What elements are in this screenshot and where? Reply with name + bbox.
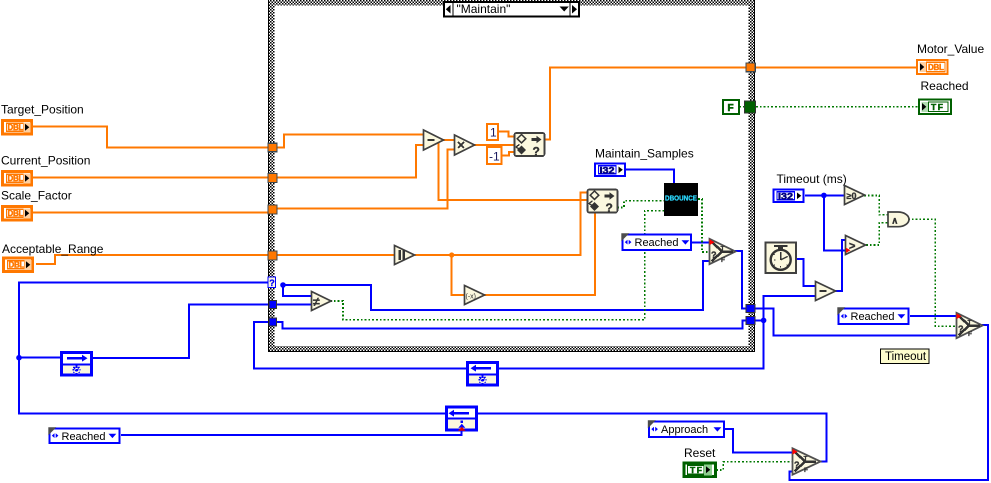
wire tunnel A to not-equal bottom input (276, 304, 312, 306)
case selector terminal (268, 277, 276, 288)
wire feedback node 1 output to tunnel A (91, 305, 268, 359)
svg-text:DBL: DBL (8, 209, 24, 218)
wire Current tunnel to subtract bottom input (275, 145, 424, 178)
wire feedback node output to left tunnel B (254, 322, 468, 368)
case selector label Maintain (444, 2, 579, 17)
wire Approach enum to bottom select T input (725, 429, 793, 452)
tunnel Scale_Factor (268, 205, 277, 214)
wire absolute value output to In Range upper limit (415, 192, 588, 255)
tunnel B memory left (269, 318, 276, 326)
svg-text:Motor_Value: Motor_Value (917, 42, 984, 56)
wire constant 1 to In Range upper input (498, 132, 515, 137)
svg-text:?: ? (711, 250, 717, 260)
svg-text:>: > (849, 241, 855, 253)
svg-text:Timeout (ms): Timeout (ms) (777, 172, 847, 186)
junction dot memory net (761, 318, 767, 324)
wire tunnel 1 to far select F input (755, 308, 957, 335)
svg-text:Timeout: Timeout (885, 351, 927, 363)
svg-text:?: ? (606, 201, 613, 215)
enum constant Reached right (837, 307, 908, 324)
svg-text:?: ? (533, 145, 540, 159)
svg-text:T: T (968, 320, 972, 327)
tunnel Acceptable_Range (268, 251, 277, 260)
svg-text:Approach: Approach (661, 424, 708, 436)
svg-text:∧: ∧ (892, 216, 899, 226)
control Target_Position DBL (3, 121, 32, 135)
control Maintain_Samples I32 (595, 164, 625, 177)
tunnel Current_Position (268, 174, 277, 183)
wire Target tunnel to subtract top input (275, 135, 424, 148)
wire memory net vertical (498, 296, 816, 368)
indicator Reached TF (919, 100, 951, 115)
wire greater output to AND (866, 223, 888, 245)
enum constant Approach (648, 420, 724, 437)
bottom select node (793, 448, 821, 474)
greater than node (846, 236, 866, 255)
svg-text:F: F (728, 103, 734, 114)
wire In Range boolean to DEBOUNCE (617, 201, 665, 208)
svg-text:Reached: Reached (62, 431, 106, 443)
absolute value node (395, 246, 415, 265)
svg-text:?: ? (794, 460, 800, 470)
wire Current_Position to tunnel (32, 177, 268, 179)
svg-text:F: F (968, 331, 972, 338)
svg-text:TF: TF (690, 465, 703, 475)
control Acceptable_Range DBL (4, 258, 33, 272)
tunnel 1 next state right (746, 304, 755, 312)
wire Acceptable_Range to tunnel (36, 255, 268, 264)
svg-text:T: T (721, 246, 725, 253)
svg-text:≥0: ≥0 (847, 191, 857, 201)
free label Timeout (881, 349, 930, 364)
wire bottom select output to state feedback node (478, 413, 827, 461)
svg-text:Target_Position: Target_Position (1, 103, 84, 117)
numeric constant -1 (487, 147, 502, 164)
DEBOUNCE subVI (664, 183, 698, 216)
wire Reached enum right to far select T input (910, 315, 957, 317)
wire clock to subtract top input (796, 259, 817, 286)
wire Motor_Value tunnel to DBL indicator (755, 66, 917, 68)
svg-text:Reset: Reset (684, 446, 716, 460)
wire DEBOUNCE output to select s input (698, 199, 710, 252)
wire Scale tunnel to multiply bottom input (277, 150, 455, 209)
greater or equal to zero node (845, 186, 865, 205)
wire Reached enum bottom-left to feedback initializer (121, 430, 462, 435)
wire Reached enum to select T input (692, 241, 710, 243)
wire In Range coerced output to Motor_Value tunnel (545, 67, 747, 139)
junction dot state net (16, 355, 22, 361)
wire tunnel B through case to tunnel 2 (276, 320, 747, 328)
svg-text:1: 1 (490, 126, 497, 140)
In Range and Coerce node 1 (515, 133, 545, 159)
tunnel A state previous (269, 301, 276, 309)
wire state branch to feedback node 1 input (19, 357, 62, 359)
svg-text:DBL: DBL (928, 63, 944, 72)
wire Timeout branch to greater bottom input (824, 195, 848, 250)
subtract node position error (424, 130, 444, 150)
wire Timeout I32 to greater-equal-zero (805, 194, 845, 196)
negate node (465, 286, 485, 305)
wire state feedback output to case selector (19, 283, 446, 414)
svg-text:F: F (721, 257, 725, 264)
wire Target_Position to tunnel (32, 127, 268, 148)
wire elapsed subtract output to greater input (834, 240, 848, 291)
junction dot abs output (449, 252, 454, 257)
feedback node 2 reverse (468, 363, 498, 386)
svg-text:-1: -1 (489, 150, 500, 164)
wire subtract output to multiply input (443, 139, 455, 141)
svg-text:I32: I32 (778, 192, 793, 202)
elapsed subtract node (816, 282, 836, 301)
clock Tick Count (766, 243, 797, 274)
select node middle (710, 239, 736, 264)
svg-text:Current_Position: Current_Position (1, 154, 90, 168)
svg-text:?: ? (958, 324, 964, 334)
svg-text:F: F (804, 467, 808, 474)
tunnel Target_Position (268, 143, 277, 152)
wire constant -1 to In Range lower input (502, 152, 515, 156)
wire far select output feedback loop (790, 325, 988, 480)
wire junction branch to negate input (452, 255, 465, 295)
junction dot selector (280, 282, 286, 288)
svg-text:≠: ≠ (313, 295, 320, 309)
svg-text:"Maintain": "Maintain" (457, 2, 511, 16)
svg-text:Acceptable_Range: Acceptable_Range (2, 242, 104, 256)
svg-text:DBOUNCE: DBOUNCE (665, 196, 697, 203)
svg-text:DBL: DBL (8, 174, 24, 183)
In Range and Coerce node 2 (588, 190, 618, 216)
wire Maintain_Samples to DEBOUNCE top (626, 169, 674, 184)
svg-text:Reached: Reached (851, 311, 895, 323)
svg-text:DBL: DBL (9, 261, 25, 270)
svg-text:TF: TF (931, 102, 944, 112)
far select node (957, 313, 983, 338)
junction dot timeout (821, 193, 827, 199)
wire greater-equal-zero output to AND (864, 195, 888, 214)
feedback node 3 state reverse (447, 407, 477, 431)
wire selector junction to select F input (283, 261, 710, 310)
tunnel 2 memory right (746, 317, 755, 325)
svg-text:(-x): (-x) (466, 294, 477, 301)
svg-text:DBL: DBL (8, 123, 24, 132)
control Current_Position DBL (3, 172, 32, 186)
wire select output to right tunnel 1 (735, 251, 747, 308)
svg-text:Reached: Reached (921, 79, 969, 93)
boolean constant F (723, 100, 739, 114)
control Scale_Factor DBL (3, 207, 32, 221)
enum constant Reached bottom left (48, 427, 119, 443)
case structure border (268, 0, 755, 352)
indicator Motor_Value DBL (917, 60, 948, 74)
svg-text:Scale_Factor: Scale_Factor (1, 189, 72, 203)
svg-text:Maintain_Samples: Maintain_Samples (595, 147, 694, 161)
multiply node (455, 135, 475, 155)
wire multiply output to In Range and Coerce x input (473, 144, 515, 146)
numeric constant 1 (487, 124, 498, 140)
svg-text:Reached: Reached (635, 237, 679, 249)
wire Reset TF to bottom select s input (716, 462, 793, 470)
wire tick count memory net (755, 319, 764, 321)
wire negate output to In Range lower limit (484, 213, 595, 295)
wire F constant to Reached tunnel green (739, 106, 745, 108)
wire AND output to far select s input (908, 219, 957, 326)
not equal node (312, 292, 332, 311)
feedback node 1 forward (62, 353, 92, 376)
wire Range tunnel to absolute value input (275, 254, 395, 256)
wire Scale_Factor to tunnel (32, 211, 269, 213)
svg-text:?: ? (269, 278, 275, 288)
svg-text:I32: I32 (600, 166, 615, 176)
wire Reached tunnel to TF indicator (756, 106, 918, 108)
wire not-equal output to DEBOUNCE reset (330, 211, 665, 320)
tunnel Reached output green (745, 101, 756, 113)
wire subtract output branch to In Range x input (439, 143, 588, 200)
control Timeout I32 (774, 190, 804, 203)
AND gate (888, 212, 909, 227)
enum constant Reached middle (621, 233, 691, 250)
svg-text:T: T (804, 456, 808, 463)
wire selector junction to not-equal top input (283, 285, 312, 296)
tunnel Motor_Value output (746, 63, 755, 72)
control Reset TF (684, 463, 716, 477)
